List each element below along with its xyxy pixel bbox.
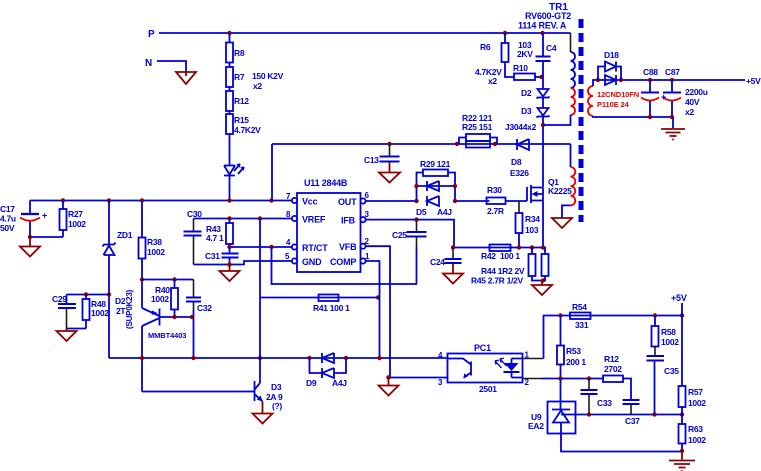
- junction C31 bottom: [227, 262, 231, 266]
- junction C32 bottom: [190, 315, 194, 319]
- phototransistor PC1: [448, 359, 472, 378]
- resistor R10: [514, 74, 535, 81]
- junction VREF-R43: [227, 216, 231, 220]
- winding auxiliary (red): [571, 167, 576, 205]
- junction R40 top: [172, 277, 176, 281]
- junction D18 left: [596, 78, 600, 82]
- svg-text:R57: R57: [688, 387, 703, 397]
- wire source down: [542, 201, 544, 248]
- svg-text:C88: C88: [643, 67, 658, 77]
- svg-text:2KV: 2KV: [517, 49, 533, 59]
- capacitor C33: [588, 379, 590, 390]
- pin 2 label: [525, 378, 530, 387]
- wire secondary top: [593, 80, 745, 86]
- svg-text:x2: x2: [253, 81, 262, 91]
- svg-text:2501: 2501: [479, 384, 497, 394]
- wire U9 cathode line y414: [561, 414, 682, 416]
- resistor R12b 2702: [603, 376, 623, 383]
- svg-text:C87: C87: [665, 67, 680, 77]
- svg-text:2.7R: 2.7R: [487, 206, 504, 216]
- svg-text:K2225: K2225: [548, 186, 572, 196]
- wire Q3 base line: [142, 391, 255, 393]
- wire R15-LED: [229, 134, 231, 165]
- junction R38-R40: [140, 277, 144, 281]
- resistor R12: [226, 91, 233, 111]
- svg-text:D5: D5: [416, 207, 427, 217]
- svg-text:R10: R10: [513, 63, 528, 73]
- svg-text:R8: R8: [234, 48, 245, 58]
- junction R22 right: [493, 142, 497, 146]
- junction D18 right: [619, 78, 623, 82]
- svg-text:C13: C13: [364, 155, 379, 165]
- svg-text:R45 2.7R 1/2V: R45 2.7R 1/2V: [471, 276, 523, 286]
- pin 6 OUT: [360, 198, 365, 203]
- node P label: [148, 29, 155, 40]
- resistor R40: [174, 280, 176, 289]
- ground C24: [443, 264, 463, 284]
- svg-text:P110E 24: P110E 24: [597, 100, 630, 109]
- wire IFB line: [366, 220, 455, 248]
- junction C33 bottom: [587, 412, 591, 416]
- optocoupler PC1 box: [448, 354, 523, 383]
- resistor R34: [518, 201, 520, 213]
- wire R41 vert to Q3: [259, 298, 261, 384]
- svg-text:x2: x2: [488, 76, 497, 86]
- svg-text:D3: D3: [521, 106, 532, 116]
- wire R41 line: [260, 297, 380, 299]
- svg-text:1002: 1002: [688, 435, 706, 445]
- svg-text:D2: D2: [521, 88, 532, 98]
- junction C4 top: [540, 31, 544, 35]
- junction Vcc-ZD1: [107, 198, 111, 202]
- svg-text:R58: R58: [661, 327, 676, 337]
- svg-text:331: 331: [575, 320, 589, 330]
- transformer TR1 labels: [518, 2, 571, 31]
- junction P-R8: [227, 31, 231, 35]
- svg-text:N: N: [145, 58, 152, 69]
- winding secondary (red): [588, 86, 593, 116]
- svg-text:R15: R15: [234, 115, 249, 125]
- pin 3 IFB: [360, 217, 365, 222]
- junction y358-D9 left: [307, 356, 311, 360]
- node N label: [145, 58, 152, 69]
- wire aux feed vertical: [271, 144, 273, 201]
- ground earth secondary: [661, 129, 685, 140]
- wire Q2 collector down: [141, 326, 143, 392]
- junction IFB-C25: [414, 217, 418, 221]
- junction RT/CT crossover: [269, 245, 273, 249]
- resistor R57: [679, 386, 686, 407]
- label 12CND10FN: [597, 90, 639, 109]
- wire comp feedback vertical: [272, 247, 418, 284]
- svg-text:+: +: [42, 211, 47, 221]
- svg-text:50V: 50V: [0, 223, 15, 233]
- svg-text:1002: 1002: [91, 308, 109, 318]
- capacitor C4: [542, 33, 544, 56]
- svg-text:R27: R27: [68, 209, 83, 219]
- svg-text:(SUP0K23): (SUP0K23): [125, 289, 134, 329]
- wire current sense line: [454, 247, 546, 249]
- pin 2 VFB: [360, 244, 365, 249]
- transistor Q1 K2225 (MOSFET): [527, 185, 543, 203]
- wire pin1 up to +5V rail: [544, 316, 683, 359]
- junction y358-COMP: [377, 356, 381, 360]
- svg-text:2702: 2702: [604, 364, 622, 374]
- junction C88: [648, 78, 652, 82]
- junction R40 bottom: [172, 315, 176, 319]
- wire R12-R15: [229, 111, 231, 114]
- capacitor C24: [452, 248, 454, 259]
- wire aux bottom: [562, 205, 571, 218]
- capacitor C17: [29, 201, 31, 214]
- wire U9 anode down and bottom rail: [561, 423, 682, 452]
- svg-text:C37: C37: [625, 416, 640, 426]
- svg-text:12CND10FN: 12CND10FN: [597, 90, 639, 99]
- pin 4 label: [438, 351, 443, 360]
- wire primary bottom to drain: [543, 115, 571, 125]
- resistor R45: [544, 248, 546, 255]
- zener D2: [537, 89, 550, 99]
- resistor R25 (on line): [466, 141, 490, 148]
- svg-text:4.7u: 4.7u: [0, 214, 16, 224]
- wire pin2 stub: [523, 378, 542, 380]
- svg-text:PC1: PC1: [474, 343, 491, 353]
- junction Vcc-R38: [140, 198, 144, 202]
- pin 1 COMP: [360, 258, 365, 263]
- svg-text:R12: R12: [234, 96, 249, 106]
- wire pin1 stub: [523, 358, 544, 360]
- svg-text:40V: 40V: [685, 97, 700, 107]
- ground Q3: [253, 402, 273, 424]
- svg-text:MMBT4403: MMBT4403: [148, 331, 186, 340]
- junction R44 top: [530, 245, 534, 249]
- resistor R41: [319, 295, 339, 302]
- junction R53 bottom: [558, 376, 562, 380]
- svg-text:U11 2844B: U11 2844B: [304, 178, 348, 188]
- junction y358-Q3: [258, 356, 262, 360]
- junction rail-R58: [653, 313, 657, 317]
- ground N chassis: [176, 72, 196, 84]
- wire N stub: [157, 61, 186, 72]
- junction R22 left: [455, 142, 459, 146]
- svg-text:COMP: COMP: [330, 257, 356, 267]
- resistor R30: [487, 198, 506, 205]
- wire R41 feed vertical: [259, 219, 261, 298]
- junction ZD1-C29: [107, 292, 111, 296]
- wire R7-R12: [229, 87, 231, 91]
- junction C35 bottom: [652, 412, 656, 416]
- wire R30 to gate: [506, 200, 528, 202]
- svg-text:R42: R42: [481, 251, 496, 261]
- svg-text:ZD1: ZD1: [117, 230, 133, 240]
- wire LED-Vcc rail: [229, 176, 231, 201]
- diode A4J (on OUT line): [427, 196, 439, 206]
- resistor R15: [226, 114, 233, 134]
- ground aux: [552, 218, 572, 228]
- wire OUT to R30: [455, 200, 490, 202]
- svg-text:150 K2V: 150 K2V: [252, 71, 284, 81]
- resistor R58: [654, 316, 656, 327]
- junction y358-Q2: [140, 356, 144, 360]
- wire VREF line: [194, 218, 293, 220]
- svg-text:D8: D8: [511, 157, 522, 167]
- svg-text:1002: 1002: [147, 247, 165, 257]
- junction primary bottom: [541, 123, 545, 127]
- node +5V label: [671, 293, 687, 303]
- svg-text:C17: C17: [0, 204, 15, 214]
- wire GND pin return: [194, 261, 293, 265]
- junction R41-COMP: [376, 295, 380, 299]
- svg-text:VFB: VFB: [339, 242, 357, 252]
- capacitor C30: [193, 219, 195, 232]
- wire R8-R7: [229, 63, 231, 68]
- junction rail-+5V: [680, 313, 684, 317]
- svg-text:x2: x2: [685, 107, 694, 117]
- capacitor C25: [416, 220, 418, 232]
- capacitor C35: [647, 356, 665, 361]
- resistor R7: [226, 67, 233, 87]
- resistor R27: [62, 201, 64, 210]
- ground pin3: [379, 378, 399, 396]
- ground C29: [57, 329, 77, 342]
- svg-text:C32: C32: [197, 303, 212, 313]
- resistor R63: [681, 415, 683, 425]
- svg-text:+: +: [661, 92, 666, 102]
- node +5V output label: [746, 76, 761, 86]
- pin 1 label: [525, 351, 530, 360]
- diode D5 (middle row): [417, 185, 456, 187]
- ground earth bottom: [669, 452, 695, 471]
- transformer core: [579, 19, 584, 222]
- pin 5 GND: [292, 258, 297, 263]
- wire aux feed line: [272, 143, 571, 145]
- wire pin3 line: [390, 377, 448, 379]
- svg-text:1002: 1002: [151, 294, 169, 304]
- svg-text:VREF: VREF: [302, 215, 326, 225]
- svg-text:GND: GND: [302, 257, 322, 267]
- junction rail-R53: [558, 313, 562, 317]
- wire R40/C32 bottom: [160, 316, 194, 318]
- wire C29-R48 bottom: [67, 328, 87, 330]
- capacitor C88: [649, 80, 651, 92]
- resistor R8: [226, 43, 233, 63]
- winding primary (blue): [571, 52, 576, 88]
- ground C13: [379, 163, 400, 183]
- wire R10-C4 node: [535, 76, 543, 78]
- svg-text:J3044x2: J3044x2: [505, 122, 537, 132]
- junction y358-D9 right: [344, 356, 348, 360]
- resistor R42: [490, 245, 511, 252]
- svg-text:200 1: 200 1: [566, 357, 586, 367]
- svg-text:RT/CT: RT/CT: [302, 243, 328, 253]
- svg-text:2200u: 2200u: [685, 87, 708, 97]
- junction C87 bottom: [670, 115, 674, 119]
- svg-text:A4J: A4J: [437, 207, 452, 217]
- LED sense diode: [224, 166, 235, 176]
- svg-text:4.7 1: 4.7 1: [206, 233, 224, 243]
- capacitor C87: [671, 80, 673, 92]
- resistor R48: [85, 295, 87, 300]
- wire COMP down: [366, 261, 380, 358]
- label 2200u 40V x2: [685, 87, 708, 117]
- resistor R54: [570, 313, 591, 320]
- diode A4J lower (loop): [310, 358, 347, 373]
- wire secondary bottom rail: [593, 116, 673, 128]
- svg-text:A4J: A4J: [332, 378, 347, 388]
- wire C29 line: [67, 294, 110, 296]
- junction source node: [541, 245, 545, 249]
- svg-text:(?): (?): [272, 401, 282, 411]
- svg-text:C33: C33: [597, 398, 612, 408]
- pin 3 label: [438, 378, 443, 387]
- diode D18 lower (on line): [605, 75, 616, 85]
- svg-text:4.7K2V: 4.7K2V: [234, 125, 261, 135]
- shunt regulator U9 EA2: [560, 379, 562, 410]
- svg-text:Vcc: Vcc: [302, 197, 318, 207]
- junction RT/CT-R43: [227, 245, 231, 249]
- resistor R38: [141, 201, 143, 238]
- wire RT/CT line: [230, 246, 293, 248]
- junction C24: [451, 245, 455, 249]
- svg-text:R29 121: R29 121: [420, 159, 451, 169]
- transistor Q3 (NPN to ground): [255, 381, 263, 402]
- svg-text:C29: C29: [52, 294, 67, 304]
- capacitor C29: [66, 295, 68, 304]
- svg-text:D9: D9: [306, 378, 317, 388]
- svg-text:103: 103: [525, 225, 539, 235]
- svg-text:P: P: [148, 29, 155, 40]
- wire R40 top line: [142, 279, 194, 281]
- svg-text:+5V: +5V: [671, 293, 687, 303]
- resistor R53: [560, 316, 562, 346]
- junction OUT loop left: [414, 199, 418, 203]
- svg-text:D3: D3: [271, 382, 282, 392]
- wire VFB down: [366, 246, 391, 377]
- svg-text:R38: R38: [147, 237, 162, 247]
- wire OUT line: [366, 200, 417, 202]
- capacitor C32: [193, 280, 195, 298]
- pin 4 RT/CT: [292, 244, 297, 249]
- svg-text:OUT: OUT: [338, 197, 357, 207]
- svg-text:R34: R34: [525, 214, 540, 224]
- LED arrows: [496, 360, 507, 369]
- wire primary top stub: [570, 33, 572, 52]
- wire opto drive line y358: [109, 357, 448, 359]
- pin 8 VREF: [292, 216, 297, 221]
- resistor R6: [503, 31, 507, 35]
- svg-text:EA2: EA2: [528, 421, 544, 431]
- svg-text:R41 100 1: R41 100 1: [313, 303, 350, 313]
- zener D3: [537, 108, 550, 118]
- capacitor C13: [389, 144, 391, 156]
- junction R57 bottom: [680, 412, 684, 416]
- diode D8 E326: [517, 139, 529, 150]
- svg-text:C31: C31: [205, 251, 220, 261]
- resistor R43: [229, 219, 231, 224]
- wire +5V down: [681, 303, 683, 386]
- svg-text:R53: R53: [566, 346, 581, 356]
- junction Vcc-LED: [227, 198, 231, 202]
- wire R6-R10: [505, 62, 514, 77]
- wire C17-R27 bottom: [30, 236, 63, 238]
- resistor R44: [531, 248, 533, 255]
- winding primary lower (red): [571, 88, 576, 115]
- diode D18 upper (loop): [598, 67, 621, 81]
- wire Vcc rail: [30, 200, 292, 202]
- junction pin3 ground: [386, 375, 390, 379]
- transistor Q2 MMBT4403 (PNP): [142, 308, 160, 326]
- svg-text:1002: 1002: [688, 398, 706, 408]
- junction R48 top: [84, 292, 88, 296]
- resistor R29 loop: [417, 173, 456, 202]
- wire R12b right to C37: [623, 379, 631, 400]
- svg-text:D18: D18: [604, 50, 619, 60]
- wire P rail: [159, 32, 571, 34]
- svg-text:100 1: 100 1: [500, 251, 520, 261]
- wire drain vertical: [542, 117, 544, 188]
- junction Vcc-aux: [269, 198, 273, 202]
- junction C13: [387, 142, 391, 146]
- junction y358-C32: [191, 356, 195, 360]
- svg-text:1002: 1002: [661, 337, 679, 347]
- diode D9 upper (on line): [322, 353, 334, 363]
- svg-text:IFB: IFB: [341, 216, 356, 226]
- ground C31: [220, 265, 240, 282]
- svg-text:+5V: +5V: [746, 76, 761, 86]
- wire R8 top stub: [229, 33, 231, 43]
- junction C87: [670, 78, 674, 82]
- svg-text:C24: C24: [430, 257, 445, 267]
- junction bottom rail: [680, 449, 684, 453]
- capacitor C31: [229, 247, 231, 253]
- svg-text:1114 REV. A: 1114 REV. A: [518, 21, 567, 31]
- pin 7 Vcc: [292, 198, 297, 203]
- svg-text:R44 1R2 2V: R44 1R2 2V: [481, 266, 525, 276]
- svg-text:E326: E326: [510, 168, 529, 178]
- svg-text:1002: 1002: [68, 219, 86, 229]
- svg-text:RV600-GT2: RV600-GT2: [525, 11, 571, 21]
- svg-text:C30: C30: [187, 209, 202, 219]
- ground C17: [20, 237, 40, 257]
- svg-text:R63: R63: [688, 424, 703, 434]
- capacitor C37: [623, 400, 640, 404]
- svg-text:R54: R54: [572, 302, 587, 312]
- svg-text:C35: C35: [664, 366, 679, 376]
- svg-text:R30: R30: [487, 185, 502, 195]
- junction C88 bottom: [648, 115, 652, 119]
- junction Vcc-C17: [61, 198, 65, 202]
- LED PC1: [511, 359, 513, 378]
- wire feedback line y378: [541, 378, 604, 380]
- wire R44/R45 bottoms: [532, 276, 545, 281]
- wire aux line corner to aux winding: [570, 144, 572, 167]
- svg-text:R25 151: R25 151: [462, 122, 493, 132]
- junction VREF-R41 feed: [258, 216, 262, 220]
- svg-text:R7: R7: [234, 72, 245, 82]
- wire C4-D2: [542, 61, 544, 89]
- svg-text:R12: R12: [604, 354, 619, 364]
- junction R34 bottom: [517, 245, 521, 249]
- zener ZD1: [108, 201, 110, 245]
- wire D2-D3: [542, 98, 544, 109]
- resistor R22 (loop above): [459, 138, 497, 145]
- svg-text:C4: C4: [546, 43, 557, 53]
- ground R44/R45: [532, 281, 552, 296]
- svg-text:C25: C25: [392, 230, 407, 240]
- svg-text:R6: R6: [480, 42, 491, 52]
- IC U11 2844B box: [297, 193, 361, 272]
- junction C33 top: [587, 376, 591, 380]
